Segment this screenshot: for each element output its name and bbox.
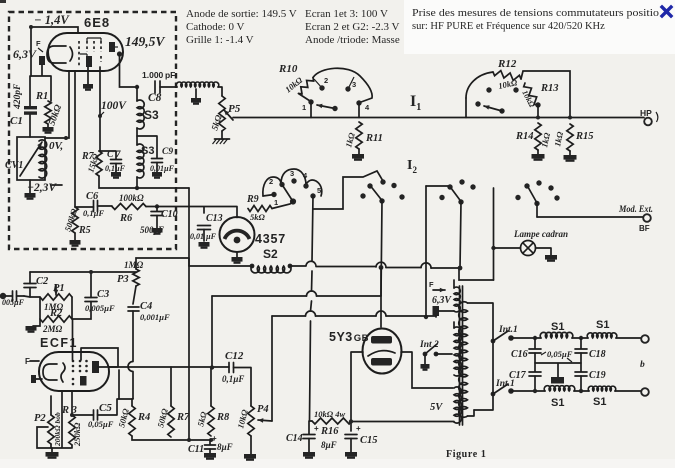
- svg-text:3: 3: [290, 169, 294, 178]
- capacitor C3: [85, 298, 97, 302]
- coil S3 lower: [137, 144, 144, 178]
- switch1 contact 3: [348, 77, 354, 89]
- scan corner mark: [0, 0, 6, 3]
- svg-text:100kΩ: 100kΩ: [119, 193, 144, 203]
- wire Int2 right: [436, 353, 452, 355]
- selector A scalloped arc: [263, 169, 322, 196]
- svg-text:R1: R1: [35, 91, 48, 102]
- svg-text:5V: 5V: [430, 402, 443, 413]
- svg-text:R4: R4: [137, 412, 150, 423]
- transformer HT winding: [454, 327, 461, 376]
- potentiometer P1 1M: [40, 294, 72, 300]
- svg-text:−2,3V: −2,3V: [27, 182, 57, 194]
- svg-text:+: +: [314, 424, 319, 433]
- bus1 S2 line left: [189, 265, 252, 267]
- svg-text:0,1µF: 0,1µF: [222, 374, 244, 384]
- svg-text:S3: S3: [144, 108, 159, 122]
- wire S3 bottom to AVC rail: [136, 177, 138, 188]
- svg-text:6,3V: 6,3V: [13, 47, 37, 61]
- selector D wiper lever: [528, 187, 537, 203]
- selector A left lead: [263, 195, 274, 197]
- svg-text:Mod. Ext.: Mod. Ext.: [618, 204, 653, 214]
- transformer primary top lead: [453, 280, 455, 288]
- capacitor C11 8uF: [209, 440, 211, 445]
- svg-text:R2: R2: [49, 308, 63, 319]
- svg-text:149,5V: 149,5V: [125, 34, 165, 49]
- svg-text:5: 5: [317, 186, 321, 195]
- vertical x381 selectorB to bus2: [381, 201, 382, 296]
- svg-text:R9: R9: [246, 194, 259, 205]
- resistor R16 10k 4w: [312, 418, 352, 424]
- wire ECF1 screen loop: [81, 348, 118, 367]
- bus1 S2 line right: [288, 264, 293, 269]
- capacitor C6: [94, 201, 98, 212]
- switch2 contacts: [486, 87, 491, 92]
- bus3 hop at x381: [376, 311, 386, 316]
- terminal output top: [641, 335, 649, 343]
- tube ECF1 anode plate triode: [80, 376, 87, 386]
- capacitor C10: [155, 204, 159, 208]
- switch1 contact 1: [308, 99, 313, 104]
- svg-text:C9: C9: [162, 147, 173, 157]
- transformer heater winding 6,3V: [454, 287, 460, 312]
- svg-text:Cathode: 0 V: Cathode: 0 V: [186, 21, 245, 33]
- svg-text:− 1,4V: − 1,4V: [34, 13, 70, 27]
- wire screen lead 100V: [99, 67, 101, 151]
- svg-text:P5: P5: [228, 103, 241, 115]
- capacitor C16: [534, 338, 536, 349]
- filter column bottoms: [535, 376, 581, 391]
- capacitor C14 8uF: [308, 421, 310, 434]
- wire tube right lead up: [118, 370, 120, 399]
- svg-text:6,3V: 6,3V: [432, 295, 452, 306]
- ground blob under R5: [74, 233, 76, 240]
- selector C wiper lever: [451, 188, 461, 202]
- svg-text:CV1: CV1: [5, 160, 23, 171]
- selector C contacts: [447, 184, 452, 189]
- main bus row1: [233, 117, 644, 119]
- ground blob under C15: [345, 452, 357, 457]
- vertical x460 selectorC lever down: [460, 202, 461, 268]
- svg-text:b: b: [640, 360, 645, 370]
- ground blob under R1: [47, 124, 49, 127]
- resistor R15 1k: [567, 124, 573, 151]
- svg-text:C17: C17: [509, 370, 527, 381]
- capacitor C5: [94, 410, 98, 420]
- svg-text:R15: R15: [575, 131, 594, 142]
- svg-text:BF: BF: [639, 224, 650, 233]
- wire cathode lead to 0V node: [45, 71, 69, 138]
- selector arc 2: [466, 72, 493, 98]
- resistor R13 diagonal: [524, 83, 538, 105]
- svg-text:100V: 100V: [101, 100, 127, 112]
- coil S3 upper: [136, 87, 138, 101]
- svg-text:+: +: [356, 424, 361, 433]
- ground blob under P4: [250, 436, 252, 454]
- resistor R11 1k: [356, 122, 362, 149]
- ground blob under C9: [156, 163, 158, 173]
- selector A wiper lever: [282, 185, 293, 202]
- svg-text:R6: R6: [119, 213, 133, 224]
- tube 6E8 anode plate right: [109, 42, 115, 52]
- dial lamp symbol: [521, 241, 536, 256]
- svg-text:4357: 4357: [255, 232, 286, 246]
- capacitor C4: [133, 286, 136, 304]
- tube 5Y3GB filament: [368, 351, 395, 356]
- terminal Mod Ext: [643, 214, 651, 222]
- audio top rail: [30, 271, 136, 273]
- tube 6E8 cathode arc: [70, 47, 73, 61]
- white area behind note text: [404, 0, 675, 54]
- lamp feed vertical: [493, 188, 495, 280]
- svg-text:P1: P1: [53, 283, 65, 294]
- wire R9 to wiper: [272, 202, 293, 209]
- ground blob under C10: [156, 216, 158, 229]
- wire grid cap to -1,4V node: [31, 27, 78, 76]
- svg-text:005µF: 005µF: [2, 298, 25, 307]
- tube 4357 target arc: [225, 231, 250, 239]
- svg-text:F: F: [429, 280, 434, 289]
- resistor R1 50k: [45, 101, 51, 124]
- svg-text:S2: S2: [263, 247, 278, 261]
- variable capacitor CV1 arrow: [20, 142, 42, 176]
- svg-text:R13: R13: [540, 83, 559, 94]
- svg-text:10kΩ 4w: 10kΩ 4w: [314, 409, 345, 419]
- svg-text:R7: R7: [176, 412, 190, 423]
- tube 5Y3GB anode bottom: [371, 358, 392, 366]
- capacitor C9: [137, 136, 157, 158]
- tube 5Y3GB cathode lead left: [351, 352, 363, 431]
- wire R5 top to C6: [75, 206, 112, 207]
- svg-text:C11: C11: [188, 444, 204, 455]
- svg-text:5kΩ: 5kΩ: [250, 212, 266, 222]
- rf choke squiggle: [176, 82, 218, 87]
- svg-text:8µF: 8µF: [321, 440, 337, 450]
- svg-text:0V,: 0V,: [49, 140, 64, 152]
- svg-text:Anode de sortie: 149.5 V: Anode de sortie: 149.5 V: [186, 8, 297, 20]
- svg-text:R16: R16: [320, 426, 339, 437]
- ground blob under C7: [115, 164, 117, 173]
- capacitor C19: [580, 353, 582, 372]
- switch1 wiper: [317, 105, 335, 109]
- ground under Int2: [424, 356, 426, 364]
- P5 wiper arrow: [224, 110, 233, 120]
- earth ground under P5: [221, 131, 223, 139]
- switch2 leads: [466, 98, 538, 118]
- coil S1 top right: [587, 333, 617, 338]
- vertical rail x309 bus1 to R16: [310, 420, 313, 422]
- svg-text:R8: R8: [216, 412, 230, 423]
- resistor R7b 50k: [170, 367, 172, 406]
- AVC rail wire: [99, 176, 189, 188]
- svg-text:200kΩ bob: 200kΩ bob: [53, 412, 62, 447]
- ground box filter: [551, 377, 564, 384]
- ground blob under P2: [51, 448, 53, 452]
- wire Mod Ext line: [537, 216, 643, 218]
- filter top rail: [511, 337, 641, 339]
- ECF1 ground left: [36, 378, 42, 380]
- wire R16 right to 5V winding bottom: [351, 421, 454, 422]
- P2 wiper loop: [37, 427, 51, 448]
- ground bar under R15: [569, 151, 571, 155]
- svg-text:6E8: 6E8: [84, 15, 110, 30]
- bus1 hop at x381: [376, 262, 386, 267]
- capacitor C17: [534, 353, 536, 372]
- tube 6E8 inner screen wire: [80, 38, 101, 57]
- wire anode lower lead to ground: [87, 67, 89, 84]
- switch1 contact 2: [314, 79, 322, 88]
- tube 6E8 cathode box: [47, 46, 66, 63]
- wire R12 to top rail corner: [521, 71, 570, 118]
- selector D lead to ModExt line: [536, 204, 538, 218]
- tube ECF1 cathode box: [43, 364, 57, 380]
- node dots filter top: [533, 336, 537, 340]
- svg-text:420pF: 420pF: [13, 83, 23, 110]
- svg-text:C18: C18: [589, 349, 606, 360]
- resistor R7 15k: [96, 151, 102, 176]
- resistor R5 500k: [72, 207, 78, 233]
- svg-text:2: 2: [269, 177, 273, 186]
- transformer secondary top lead: [468, 303, 494, 341]
- potentiometer P4 10k: [248, 406, 254, 436]
- coil S1 bottom right: [588, 386, 615, 391]
- svg-text:HP: HP: [640, 108, 652, 118]
- svg-text:Ecran 1et 3: 100 V: Ecran 1et 3: 100 V: [305, 8, 388, 20]
- antenna input blob: [0, 293, 6, 299]
- wire R3 to C5 to R4 node: [72, 399, 133, 416]
- svg-text:250kΩ: 250kΩ: [72, 422, 82, 447]
- capacitor C13: [198, 226, 211, 230]
- tuning coil in CV1: [39, 140, 47, 178]
- resistor R8 5k: [210, 368, 212, 406]
- resistor R2 2M: [40, 316, 72, 322]
- svg-text:Ecran 2 et G2: -2.3 V: Ecran 2 et G2: -2.3 V: [305, 21, 400, 33]
- svg-text:0,005µF: 0,005µF: [85, 303, 115, 313]
- ground blob below input: [33, 319, 40, 326]
- svg-text:Figure 1: Figure 1: [446, 449, 486, 460]
- selector arc 1: [313, 68, 372, 102]
- svg-text:C1: C1: [10, 115, 23, 127]
- resistor R6 100k: [112, 204, 146, 210]
- tube 6E8 anode dot: [115, 46, 118, 48]
- wire 6E8 anode lead to C8 line: [120, 54, 138, 87]
- wire C4 lead down with hop: [128, 311, 133, 399]
- node dot S3 top: [135, 85, 139, 89]
- svg-text:S1: S1: [593, 396, 606, 408]
- svg-text:2MΩ: 2MΩ: [42, 324, 63, 334]
- potentiometer P5 5k: [219, 96, 225, 131]
- wire grid return to -2,3V and R5: [52, 71, 75, 207]
- switch1 leads to bus: [311, 102, 359, 118]
- arrow into P4 wiper: [258, 420, 272, 421]
- svg-text:sur: HF PURE et Fréquence sur: sur: HF PURE et Fréquence sur 420/520 KH…: [412, 21, 605, 32]
- selector D contacts: [524, 183, 529, 188]
- node dots filter bottom: [533, 389, 537, 393]
- vertical rail x189: [188, 188, 190, 440]
- bottom rail ECF1: [132, 436, 213, 440]
- svg-text:S1: S1: [551, 397, 564, 409]
- vertical x212 bus2 to anode line: [211, 296, 213, 368]
- wire P2 R3 bottom rail: [51, 391, 71, 448]
- wire P3 top to rail x189: [136, 258, 189, 269]
- tube 4357 envelope: [220, 217, 255, 252]
- svg-text:C19: C19: [589, 370, 606, 381]
- svg-text:R14: R14: [515, 131, 534, 142]
- transformer secondary winding: [459, 302, 468, 418]
- tube 6E8 anode plate lower: [86, 56, 92, 67]
- tube 5Y3GB plate lead top: [380, 268, 382, 327]
- svg-text:C16: C16: [511, 349, 528, 360]
- resistor R10 diagonal: [299, 78, 314, 94]
- ground blob under R11: [358, 149, 360, 154]
- bottom light strip: [0, 459, 675, 468]
- heater resistor blob 6E8: [39, 56, 45, 65]
- tube ECF1 grid dots: [72, 360, 88, 386]
- bus1 hop at x426: [421, 263, 431, 268]
- terminal HP: [644, 118, 652, 126]
- svg-text:P4: P4: [257, 404, 269, 415]
- wire ECF1 anode line to C12: [109, 366, 229, 368]
- filter center tap: [535, 363, 581, 377]
- dashed boundary box of HF section: [9, 12, 176, 249]
- svg-text:C2: C2: [36, 276, 49, 287]
- svg-text:C6: C6: [86, 191, 99, 202]
- transformer core lines: [460, 286, 463, 425]
- selector A contacts: [279, 182, 284, 187]
- transformer secondary bottom lead: [468, 410, 475, 416]
- vertical x426 selectorC feed down: [425, 186, 427, 317]
- capacitor C12: [229, 363, 234, 373]
- ground blob of lamp: [545, 255, 557, 260]
- wire choke to P5: [218, 87, 222, 96]
- svg-text:C15: C15: [360, 435, 378, 446]
- ground bar under R14: [537, 150, 539, 154]
- svg-text:2: 2: [324, 76, 328, 85]
- svg-text:C8: C8: [148, 92, 162, 104]
- capacitor C2: [24, 284, 36, 288]
- tube 4357 cathode dot: [234, 237, 241, 244]
- wire ECF1 grid feed from above: [72, 319, 74, 360]
- resistor R3 250k: [69, 415, 75, 445]
- selector B contacts: [367, 183, 372, 188]
- filter bottom rail: [511, 390, 641, 392]
- tube ECF1 cathode squiggle: [61, 363, 65, 382]
- svg-text:R5: R5: [78, 225, 91, 236]
- svg-text:0,01µF: 0,01µF: [150, 164, 175, 173]
- resistor R4 50k: [131, 399, 133, 406]
- svg-text:µF: µF: [205, 232, 217, 241]
- svg-text:C4: C4: [140, 301, 152, 312]
- svg-text:C10: C10: [161, 209, 178, 220]
- fuse blob at bus3 end: [433, 306, 440, 316]
- potentiometer P2 200k: [48, 415, 54, 444]
- voltage table column 1: [186, 8, 297, 46]
- tube 5Y3GB envelope: [363, 329, 402, 374]
- ground blob under C13: [199, 242, 210, 247]
- input capacitor plates: [13, 291, 17, 301]
- vertical x272 bus3 to P4: [271, 316, 273, 421]
- svg-text:8µF: 8µF: [217, 442, 233, 452]
- svg-text:R11: R11: [365, 133, 383, 144]
- svg-text:0,05µF: 0,05µF: [88, 419, 114, 429]
- selector B wiper lever: [371, 187, 382, 201]
- switch Int1 bottom: [491, 392, 496, 397]
- svg-text:Prise des mesures de tensions: Prise des mesures de tensions commutateu…: [412, 8, 659, 19]
- svg-text:+: +: [212, 434, 217, 443]
- wire C1 to CV1 box: [29, 115, 31, 137]
- tube 5Y3GB anode top: [371, 336, 392, 344]
- svg-text:C 7: C 7: [107, 150, 122, 160]
- capacitor C1 plates: [24, 106, 37, 109]
- resistor R12 10k: [493, 71, 521, 81]
- svg-text:1: 1: [274, 198, 278, 207]
- svg-text:C12: C12: [225, 350, 244, 362]
- capacitor C8: [155, 81, 160, 93]
- ground blob under C14: [303, 452, 315, 457]
- selector B feed wire: [313, 171, 383, 209]
- variable capacitor CV1 box: [17, 137, 45, 180]
- selector C feed wire: [426, 185, 450, 187]
- blue close button: [662, 7, 671, 16]
- svg-text:Grille 1: -1.4 V: Grille 1: -1.4 V: [186, 34, 254, 46]
- capacitor C7: [111, 160, 122, 164]
- coil S1 bottom left: [544, 386, 575, 391]
- svg-text:1MΩ: 1MΩ: [124, 260, 144, 270]
- tube ECF1 anode plate pentode: [92, 361, 99, 373]
- svg-text:C5: C5: [99, 402, 112, 414]
- svg-text:0,001µF: 0,001µF: [140, 312, 170, 322]
- svg-text:0,1µF: 0,1µF: [83, 208, 105, 218]
- svg-text:0,05µF: 0,05µF: [547, 349, 573, 359]
- ground blob under C11: [204, 453, 216, 458]
- bus3 heater wire: [272, 315, 436, 317]
- resistor R9 5k: [248, 206, 272, 212]
- bus3 hop at x311: [306, 311, 316, 316]
- svg-text:F: F: [36, 39, 41, 48]
- transformer rectifier winding 5V: [454, 387, 461, 423]
- svg-text:P2: P2: [34, 413, 46, 424]
- capacitor C15: [345, 435, 357, 439]
- svg-text:S1: S1: [551, 321, 564, 333]
- wire C12 to P4: [234, 368, 252, 407]
- svg-text:Lampe cadran: Lampe cadran: [513, 230, 568, 240]
- tube 5Y3GB lead right: [401, 352, 453, 388]
- svg-text:R12: R12: [497, 58, 517, 70]
- measurement note text: [412, 8, 659, 32]
- bus2 hop at x311: [307, 291, 317, 296]
- tube ECF1 envelope: [39, 352, 109, 391]
- wire input row: [24, 296, 40, 319]
- svg-text:S1: S1: [596, 319, 609, 331]
- svg-text:Int.1: Int.1: [498, 325, 518, 335]
- resistor R14 1k: [535, 123, 541, 150]
- wire between S3 coils: [136, 128, 138, 145]
- lamp wires: [494, 248, 552, 255]
- voltage table column 2: [305, 8, 400, 46]
- bus2 wire: [212, 295, 381, 297]
- svg-text:3: 3: [352, 80, 356, 89]
- capacitor C18: [580, 338, 582, 349]
- ground under CV1: [29, 180, 31, 193]
- switch1 contact 4: [356, 100, 361, 105]
- wire heater row: [30, 65, 51, 106]
- vertical long x311: [310, 196, 314, 421]
- svg-text:C13: C13: [206, 213, 223, 224]
- svg-text:5Y3GB: 5Y3GB: [329, 330, 369, 344]
- wire R7 C7 row: [99, 151, 116, 159]
- coil S2: [251, 266, 291, 273]
- svg-text:S3: S3: [141, 145, 154, 157]
